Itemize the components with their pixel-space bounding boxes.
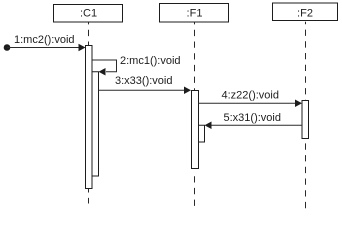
message 5 wire <box>211 124 302 126</box>
lifeline :F1 upper segment <box>194 22 196 91</box>
activation bar :F1 nested <box>199 125 205 142</box>
svg-text:1:mc2():void: 1:mc2():void <box>14 34 75 46</box>
message 1 arrowhead <box>79 44 86 52</box>
object box :F2 <box>273 3 338 21</box>
activation bar :C1 main <box>86 46 93 189</box>
svg-text:3:x33():void: 3:x33():void <box>115 75 172 87</box>
svg-text:5:x31():void: 5:x31():void <box>224 112 281 124</box>
activation bar :F1 main <box>192 91 199 169</box>
activation bar :C1 nested (self call) <box>92 72 99 176</box>
lifeline :F2 lower segment <box>305 139 307 210</box>
lifeline :F1 lower segment <box>194 171 196 208</box>
message 2 self-call wire <box>92 60 117 72</box>
svg-text::F2: :F2 <box>297 8 313 20</box>
activation bar :F2 <box>302 101 309 139</box>
object box :C1 <box>54 5 123 23</box>
svg-text::F1: :F1 <box>187 8 203 20</box>
message 5 arrowhead <box>205 121 212 129</box>
message 4 arrowhead <box>295 99 302 107</box>
message 4 wire <box>199 102 296 104</box>
lifeline :C1 lower segment <box>88 189 90 204</box>
svg-text:2:mc1():void: 2:mc1():void <box>120 55 181 67</box>
message 3 arrowhead <box>184 86 191 94</box>
svg-text::C1: :C1 <box>80 8 97 20</box>
message 2 arrowhead <box>99 68 106 76</box>
lifeline :F2 upper segment <box>305 22 307 101</box>
message 3 wire <box>99 89 185 91</box>
svg-text:4:z22():void: 4:z22():void <box>222 90 279 102</box>
lifeline :C1 upper segment <box>88 22 90 46</box>
message 1 found-message circle <box>4 44 11 51</box>
message 1 wire <box>7 47 79 49</box>
object box :F1 <box>160 4 229 23</box>
